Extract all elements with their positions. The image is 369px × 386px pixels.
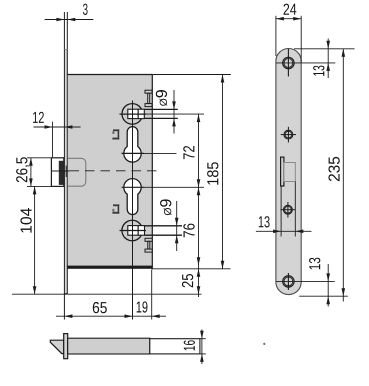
dim 72 / 76 / 25 chain line [198, 114, 200, 297]
case depth box (bottom view) [150, 339, 200, 354]
screw hole S2 [284, 130, 293, 139]
dim 65 / dim 19 (backset) [56, 315, 166, 317]
faceplate (bottom view, end-on) [64, 334, 68, 359]
extension line, case top (for dim 185) [152, 74, 231, 76]
cylinder hole C1 (upper) [122, 104, 143, 125]
fixing lug (lower I-shape) [145, 238, 152, 241]
latch bolt tip (bottom view) [50, 340, 64, 353]
dim 12 (latch protrusion) [34, 126, 81, 128]
lock case body [68, 75, 152, 266]
bottom extension line (faceplate bottom) [12, 293, 202, 295]
fixing lug (upper I-shape) [145, 90, 152, 93]
keyhole K2 (lower, slot down) [124, 179, 141, 215]
spring clip glyph near K2 [113, 204, 119, 206]
dim 3 (faceplate thickness) [45, 19, 94, 21]
dim 13 (bottom screw) [299, 295, 348, 297]
dim 185 [222, 75, 224, 269]
diameter 9 extension lines (lower) [145, 225, 183, 227]
dim 104 [34, 186, 36, 294]
C2 horizontal crosshair [120, 230, 147, 232]
C1 horizontal crosshair / extension (dim 72 top) [120, 113, 147, 115]
keyhole K1 (upper, slot up) [124, 127, 141, 162]
K2 bulb crosshair / extension (dims 72/76) [122, 186, 145, 188]
faceplate front view (rounded strip) [276, 49, 301, 295]
latch centerline solid part [52, 170, 70, 172]
dim diameter 9 (upper) [173, 90, 175, 134]
vertical centerline through keyholes [132, 101, 134, 320]
speck artifact [263, 343, 265, 345]
dim 24 (plate width) [275, 16, 277, 56]
lock case (bottom view) [68, 338, 150, 354]
screw hole S3 [284, 205, 293, 214]
K1 bulb crosshair / extension [122, 152, 145, 154]
diameter 9 extension lines (upper) [144, 108, 178, 110]
C1 side pocket [138, 109, 144, 118]
dim 26,5 (latch height) [27, 157, 51, 159]
C2 square hole [128, 226, 138, 236]
dim 13 (cutout width) [280, 186, 282, 237]
faceplate (side view, gray strip) [65, 49, 68, 293]
extension line, case bottom (for dims 185/25) [152, 268, 230, 270]
dashed horizontal centerline [70, 170, 161, 172]
latch bolt dark face [59, 161, 64, 185]
dim 13 (top screw) [294, 48, 355, 50]
dim 16 (case thickness) [200, 338, 206, 340]
latch housing inside case [68, 158, 86, 186]
screw hole S1 (top) [283, 57, 294, 68]
screw hole S4 (bottom) [283, 276, 294, 287]
latch cutout window [284, 163, 295, 182]
lock case bottom edge band [67, 266, 152, 269]
dim diameter 9 (lower) [176, 201, 178, 251]
spring clip glyph near K1 [113, 129, 119, 131]
C1 square hole [128, 109, 138, 118]
dim 235 (plate length) [342, 49, 344, 302]
C2 side pocket [138, 226, 144, 236]
latch bolt head (protruding) [51, 158, 63, 187]
latch centerline tick [65, 166, 67, 178]
cylinder hole C2 (lower) [122, 220, 143, 241]
latch cutout slot [281, 157, 284, 186]
